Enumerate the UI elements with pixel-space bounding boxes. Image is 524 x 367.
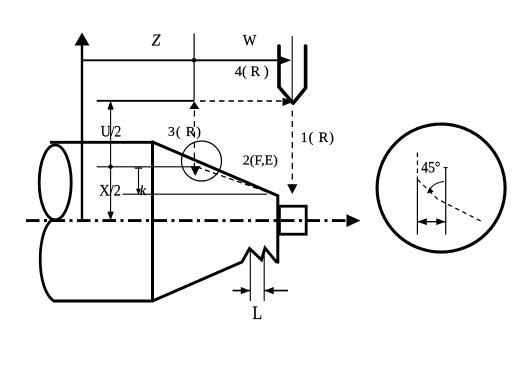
dimension line W/Z top <box>82 59 282 61</box>
workpiece top edge <box>50 141 154 144</box>
cone taper top edge <box>151 142 277 196</box>
k dimension tick line <box>138 168 140 194</box>
workpiece left end ellipse (upper) <box>39 145 71 220</box>
svg-text:1( R): 1( R) <box>301 130 335 146</box>
detail right vertical line <box>445 168 447 235</box>
detail dashed 45 deg chamfer line <box>417 179 481 221</box>
junction dot X/2 <box>108 165 112 169</box>
down arrowhead of path 1 <box>287 184 297 194</box>
junction dot Z/W <box>192 58 197 63</box>
detail circle <box>377 124 505 252</box>
dashed vertical path 3(R) <box>193 111 195 167</box>
cone base vertical line <box>151 141 154 301</box>
workpiece left end arc (lower) <box>40 220 53 301</box>
centerline dash-dot axis <box>26 219 350 222</box>
cutting tool left flank <box>279 46 293 103</box>
U/2 dimension line <box>110 101 112 220</box>
U/2 top arrowhead <box>107 101 113 110</box>
svg-text:2(F,E): 2(F,E) <box>243 154 278 169</box>
detail dimension line <box>417 221 445 223</box>
svg-text:45°: 45° <box>421 160 440 177</box>
svg-text:3( R): 3( R) <box>168 125 201 140</box>
k top serif <box>135 167 142 169</box>
svg-text:4( R ): 4( R ) <box>235 64 269 80</box>
dashed cutting path 2 along taper <box>197 167 277 196</box>
X axis vertical line <box>81 42 83 221</box>
svg-text:L: L <box>252 303 262 324</box>
thin reference line at X/2 level <box>97 166 201 168</box>
L extension line right <box>263 254 265 301</box>
L extension line left <box>249 251 251 301</box>
detail dim right arrowhead <box>436 218 445 225</box>
end stub rectangle <box>279 206 306 234</box>
arrowhead of path 4 at tool <box>280 56 291 64</box>
horizontal line at rapid level <box>97 100 194 102</box>
down arrowhead of path 3 <box>190 166 200 176</box>
arrowhead into tool tip <box>283 98 294 106</box>
divider line between Z and W <box>193 34 195 101</box>
detail angle arc <box>429 182 444 191</box>
detail left vertical dashed part <box>416 153 418 180</box>
detail right vertical top tick <box>444 167 448 169</box>
L dimension line left <box>233 290 250 292</box>
svg-text:k: k <box>140 184 147 199</box>
tool position circle at 3 <box>182 141 222 181</box>
detail left vertical solid part <box>416 179 418 235</box>
detail angle arc arrowhead <box>427 187 434 193</box>
svg-text:U/2: U/2 <box>101 123 122 140</box>
L left arrowhead <box>241 287 250 294</box>
svg-text:W: W <box>243 33 257 50</box>
cone bottom edge with break zigzag <box>153 248 277 301</box>
L dimension line right <box>265 290 288 292</box>
cone right end face <box>276 195 279 264</box>
X axis arrowhead <box>75 33 90 46</box>
workpiece bottom edge <box>53 300 154 303</box>
centerline arrowhead <box>347 214 361 227</box>
tool center line <box>291 36 293 102</box>
k bottom serif <box>136 189 141 195</box>
dashed vertical path 1(R) <box>291 111 293 186</box>
svg-text:X/2: X/2 <box>99 183 121 200</box>
svg-text:Z: Z <box>152 31 161 50</box>
cutting tool right flank <box>293 46 305 103</box>
dashed line from rapid level to tool tip <box>200 100 283 102</box>
detail dim left arrowhead <box>418 218 427 225</box>
U/2 bottom arrowhead <box>107 212 113 221</box>
thin reference line at taper end level <box>123 193 268 195</box>
up arrowhead at rapid level <box>189 101 199 109</box>
L right arrowhead <box>264 287 273 294</box>
